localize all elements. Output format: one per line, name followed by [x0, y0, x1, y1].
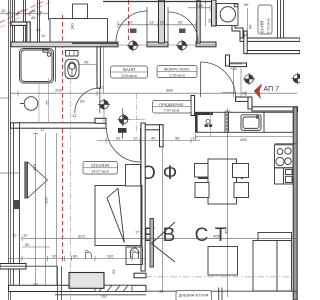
svg-text:96: 96 [248, 24, 253, 29]
svg-text:ДНЕВНА-КУХНЯ: ДНЕВНА-КУХНЯ [179, 294, 209, 298]
bathroom / bedroom separating wall [11, 118, 164, 147]
dining table [208, 159, 237, 204]
left page border [8, 0, 10, 300]
gray axis dashed vertical in bedroom [70, 78, 72, 300]
svg-text:323: 323 [78, 234, 85, 239]
dark door frame in left wall [13, 200, 20, 209]
red dashed diagonal top-left [0, 0, 46, 23]
svg-text:14.27 кв.м: 14.27 кв.м [91, 170, 109, 174]
kitchen dim row y144.5 [196, 136, 294, 138]
entrance small dims [233, 68, 235, 97]
top middle dim row [118, 24, 196, 26]
svg-text:12: 12 [99, 85, 104, 90]
svg-text:60: 60 [73, 253, 78, 258]
corridor walls above entrance [226, 55, 247, 67]
predverie dim row y140.5 [97, 140, 200, 142]
axis marker right edge [292, 73, 304, 85]
kitchen sink [241, 115, 261, 131]
svg-text:12: 12 [133, 135, 138, 140]
nightstand [126, 165, 141, 187]
bedroom lower dims [22, 246, 50, 248]
centerline dash-dot horizontal [145, 276, 297, 278]
svg-text:БАНЯ: БАНЯ [123, 67, 135, 72]
axis marker bathroom corner [98, 99, 110, 111]
jamb marks below top-wall markers [130, 29, 186, 34]
predverie right wall [191, 96, 195, 116]
svg-text:92: 92 [128, 20, 133, 25]
svg-text:3.70 кв.м: 3.70 кв.м [267, 18, 271, 33]
svg-text:25: 25 [242, 90, 247, 95]
toilet [65, 51, 79, 79]
svg-text:10: 10 [12, 233, 17, 238]
door (upper bathroom) leaf + arc [116, 7, 147, 42]
shower tray [20, 49, 54, 84]
svg-text:423: 423 [32, 164, 37, 171]
thick corner wall top-left [11, 22, 30, 44]
svg-text:МОКРО ПОМ.: МОКРО ПОМ. [164, 67, 190, 72]
vertical dims washing room [205, 0, 207, 26]
sofa [253, 233, 292, 292]
counter left-end dots [205, 120, 213, 128]
bathroom 45 dim [78, 64, 97, 66]
axis extension below marker [103, 109, 105, 123]
svg-text:205: 205 [55, 88, 62, 93]
AC unit outside [69, 273, 104, 289]
bedroom door leaf + arc [107, 128, 141, 162]
svg-text:15: 15 [84, 249, 89, 254]
svg-text:12: 12 [41, 33, 46, 38]
window hatch in facade [95, 285, 132, 291]
svg-text:45: 45 [31, 15, 36, 20]
top edge line of upper rooms [103, 1, 216, 3]
desk + chair bottom of bedroom [126, 247, 143, 265]
svg-text:3.09 кв.м: 3.09 кв.м [121, 74, 137, 78]
axis marker entrance [243, 73, 255, 85]
door (wet room) leaf + arc [168, 7, 198, 42]
svg-text:455: 455 [224, 227, 229, 234]
washing machine room (АП8) left wall [212, 0, 217, 26]
section cut symbols on y258 line [86, 252, 92, 259]
bedroom bottom facade wall [0, 264, 146, 292]
АП7 entrance door [201, 62, 236, 97]
svg-text:45: 45 [84, 60, 89, 65]
svg-text:53: 53 [80, 99, 85, 104]
stove [275, 144, 298, 168]
bathroom inner partition line [55, 47, 57, 82]
svg-text:92: 92 [178, 20, 183, 25]
svg-text:+26: +26 [230, 66, 238, 71]
svg-text:7.97 кв.м: 7.97 кв.м [164, 109, 180, 113]
svg-text:10: 10 [52, 253, 57, 258]
svg-text:98: 98 [175, 135, 180, 140]
svg-text:405: 405 [213, 234, 220, 239]
wardrobe strip + chevron [25, 162, 48, 198]
kitchen counter [196, 112, 294, 132]
upper structure rectangles [50, 4, 108, 42]
svg-text:40: 40 [151, 135, 156, 140]
svg-text:162: 162 [101, 295, 107, 299]
chairs [195, 164, 249, 198]
svg-text:15: 15 [131, 249, 136, 254]
svg-text:40: 40 [20, 8, 25, 13]
svg-text:2.35 кв.м: 2.35 кв.м [169, 73, 185, 77]
svg-text:16: 16 [160, 20, 165, 25]
svg-text:10: 10 [1, 8, 6, 13]
svg-text:12: 12 [72, 113, 77, 118]
svg-text:12: 12 [40, 127, 45, 132]
svg-text:48: 48 [36, 27, 41, 32]
svg-text:96: 96 [244, 2, 249, 7]
right outer wall [293, 107, 297, 300]
svg-text:218: 218 [196, 3, 203, 8]
svg-text:388: 388 [166, 88, 173, 93]
left vert line x103.5 [103, 47, 105, 93]
corridor walls right of wet room [240, 31, 300, 54]
cabinet below stove [275, 168, 294, 184]
svg-text:10: 10 [23, 233, 28, 238]
top-left dim row [0, 12, 48, 14]
right building edge lines (top) [278, 0, 284, 38]
axis line through top wall [100, 44, 216, 46]
svg-text:100: 100 [43, 197, 48, 204]
БАНЯ 3.70 rotated label [258, 5, 272, 34]
coffee table [208, 247, 238, 276]
svg-text:26: 26 [111, 269, 116, 274]
red dashed section line upper [128, 0, 130, 41]
svg-text:13: 13 [149, 20, 154, 25]
svg-text:110: 110 [107, 253, 114, 258]
top rooms partition (between upper bathroom and wet room) [159, 0, 201, 43]
bedroom / living wall [141, 123, 145, 271]
dim texts [1, 2, 249, 294]
top wall of bathroom block (wall D) [11, 42, 216, 47]
small black blob below predverie marker [118, 108, 127, 139]
bedroom vertical dims [35, 133, 37, 285]
axis marker on top wall right [176, 40, 188, 52]
svg-text:25: 25 [207, 18, 212, 23]
svg-text:17: 17 [135, 230, 140, 235]
entrance walls [236, 97, 298, 111]
bed [95, 186, 142, 246]
svg-text:АП 7: АП 7 [264, 86, 280, 93]
svg-text:ПРЕДВЕРИЕ: ПРЕДВЕРИЕ [159, 102, 184, 107]
svg-text:ЕВ СТ: ЕВ СТ [143, 225, 233, 246]
watermark [141, 163, 255, 246]
extension lines below shower [38, 83, 40, 123]
bottom dim row y238.7 (323 / 405) [22, 238, 297, 240]
y93 axis/dim row [11, 92, 298, 94]
axis marker predverie [118, 114, 130, 126]
svg-text:12: 12 [192, 135, 197, 140]
neighbour bathroom right wall + door [97, 47, 100, 89]
svg-text:255: 255 [240, 137, 247, 142]
wash basin [20, 97, 38, 111]
svg-text:25: 25 [45, 100, 50, 105]
sliding panel + chevron living room [150, 219, 175, 268]
living room bottom line + posts [146, 288, 297, 300]
wall step below washing machine [232, 26, 243, 38]
svg-text:96: 96 [243, 33, 248, 38]
red dashed section line vertical [62, 15, 64, 263]
svg-text:50: 50 [25, 242, 30, 247]
svg-text:140: 140 [70, 23, 75, 30]
svg-text:12: 12 [159, 289, 164, 294]
svg-text:БАНЯ: БАНЯ [260, 21, 265, 33]
washing machine [217, 4, 239, 26]
gray axis dashed vertical predverie [136, 94, 138, 133]
svg-text:СПАЛНЯ: СПАЛНЯ [91, 163, 109, 168]
top-left shaft walls [13, 0, 49, 45]
vertical dim x227.5 [227, 108, 229, 297]
room labels [111, 66, 148, 78]
bedroom left wall [14, 123, 20, 285]
red АП 7 marker [255, 85, 280, 98]
svg-text:16: 16 [31, 8, 36, 13]
axis marker on top wall left [127, 40, 139, 52]
svg-text:92: 92 [116, 135, 121, 140]
